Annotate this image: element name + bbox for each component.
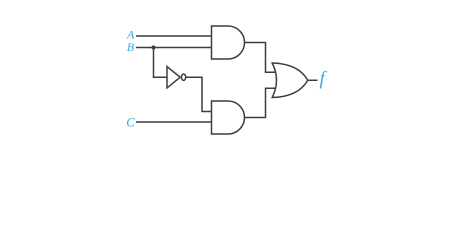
svg-text:B: B	[127, 40, 135, 54]
svg-text:C: C	[126, 114, 135, 129]
